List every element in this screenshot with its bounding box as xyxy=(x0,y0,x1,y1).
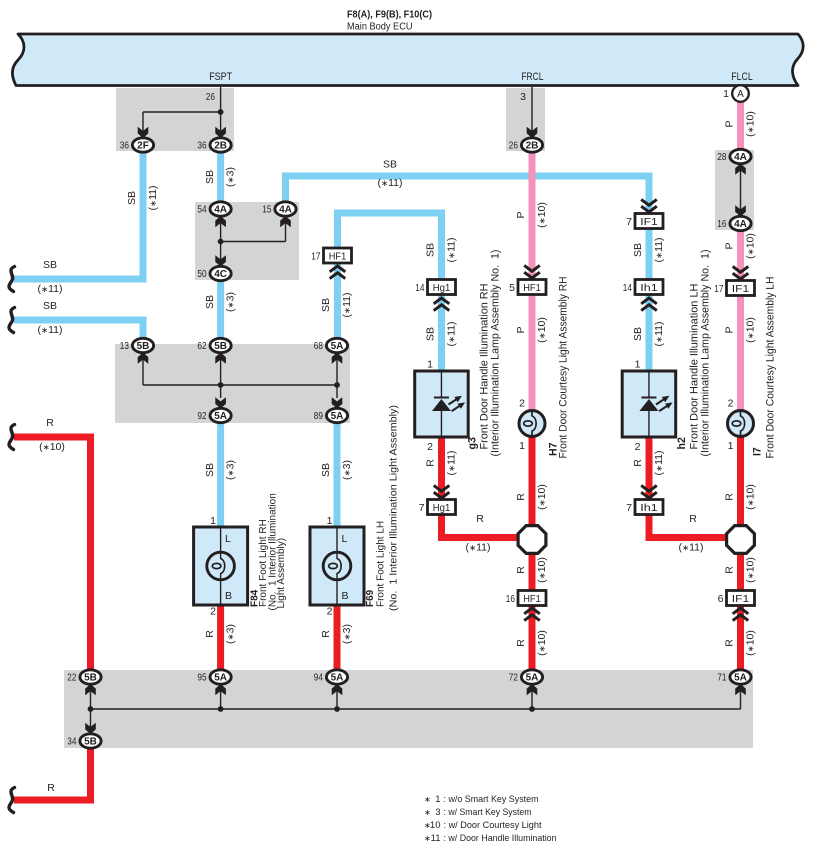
svg-text:R: R xyxy=(47,782,55,794)
svg-text:36: 36 xyxy=(120,140,129,152)
svg-text:SB: SB xyxy=(204,463,216,477)
svg-text:16: 16 xyxy=(717,218,726,230)
svg-text:(∗10): (∗10) xyxy=(745,111,757,137)
svg-text:10: 10 xyxy=(430,820,441,831)
svg-text:13: 13 xyxy=(120,340,129,352)
svg-text:Light Assembly): Light Assembly) xyxy=(276,538,287,609)
svg-text:5A: 5A xyxy=(734,673,747,684)
svg-text:(∗11): (∗11) xyxy=(37,324,62,336)
svg-text:(∗11): (∗11) xyxy=(377,177,402,189)
svg-text:22: 22 xyxy=(67,672,76,684)
svg-text:B: B xyxy=(225,590,232,602)
svg-text:2B: 2B xyxy=(526,141,539,152)
svg-text:: w/o Smart Key System: : w/o Smart Key System xyxy=(444,794,539,805)
svg-text:SB: SB xyxy=(320,463,332,477)
svg-text:36: 36 xyxy=(197,140,206,152)
svg-text:28: 28 xyxy=(717,151,726,163)
svg-text:(∗11): (∗11) xyxy=(37,283,62,295)
svg-text:5: 5 xyxy=(509,282,515,294)
svg-text:P: P xyxy=(724,120,736,127)
svg-text:HF1: HF1 xyxy=(523,593,541,605)
svg-text:(∗10): (∗10) xyxy=(745,233,757,259)
svg-text:(∗3): (∗3) xyxy=(225,167,237,187)
svg-text:R: R xyxy=(515,639,527,647)
svg-text:(∗11): (∗11) xyxy=(653,450,665,475)
svg-text:(∗11): (∗11) xyxy=(446,321,458,346)
svg-text:71: 71 xyxy=(717,672,726,684)
svg-text:(∗11): (∗11) xyxy=(653,321,665,346)
svg-text:R: R xyxy=(689,513,697,525)
svg-text:1: 1 xyxy=(427,359,433,371)
svg-text:HF1: HF1 xyxy=(329,250,347,262)
svg-text:1: 1 xyxy=(210,515,216,527)
svg-text:SB: SB xyxy=(383,159,397,171)
svg-text:R: R xyxy=(632,459,644,467)
svg-text:I7: I7 xyxy=(752,447,764,456)
svg-text:7: 7 xyxy=(626,216,632,228)
svg-text:15: 15 xyxy=(262,204,271,216)
svg-text:94: 94 xyxy=(314,672,323,684)
svg-text:(∗11): (∗11) xyxy=(465,542,490,554)
svg-text:26: 26 xyxy=(206,91,215,103)
svg-text:14: 14 xyxy=(415,282,424,294)
svg-text:R: R xyxy=(515,493,527,501)
svg-text:(∗10): (∗10) xyxy=(39,441,65,453)
svg-text:95: 95 xyxy=(197,672,206,684)
svg-text:Hg1: Hg1 xyxy=(433,282,451,294)
svg-text:R: R xyxy=(204,630,216,638)
svg-text:89: 89 xyxy=(314,410,323,422)
svg-text:IF1: IF1 xyxy=(732,283,750,295)
svg-text:(∗11): (∗11) xyxy=(653,237,665,262)
svg-text:5A: 5A xyxy=(331,411,344,422)
svg-text:(∗3): (∗3) xyxy=(341,460,353,480)
svg-text:: w/ Smart Key System: : w/ Smart Key System xyxy=(444,807,532,818)
svg-text:11: 11 xyxy=(431,833,441,844)
svg-text:: w/ Door Courtesy Light: : w/ Door Courtesy Light xyxy=(444,820,542,831)
svg-text:(∗11): (∗11) xyxy=(341,292,353,317)
svg-text:5A: 5A xyxy=(331,673,344,684)
svg-text:1: 1 xyxy=(635,359,641,371)
svg-text:h2: h2 xyxy=(676,437,688,449)
svg-text:3: 3 xyxy=(520,91,526,103)
svg-text:(∗10): (∗10) xyxy=(536,317,548,343)
svg-text:(∗3): (∗3) xyxy=(225,624,237,644)
svg-text:Front Foot Light LH: Front Foot Light LH xyxy=(375,521,386,607)
svg-text:68: 68 xyxy=(314,340,323,352)
svg-text:(∗10): (∗10) xyxy=(536,202,548,228)
svg-text:SB: SB xyxy=(126,191,138,205)
svg-text:1: 1 xyxy=(723,88,729,100)
svg-text:Front Door Courtesy Light Asse: Front Door Courtesy Light Assembly RH xyxy=(558,277,570,459)
svg-text:Hg1: Hg1 xyxy=(433,502,451,514)
svg-text:R: R xyxy=(476,513,484,525)
svg-text:P: P xyxy=(724,242,736,249)
svg-text:(∗11): (∗11) xyxy=(446,450,458,475)
svg-text:1: 1 xyxy=(327,515,333,527)
svg-text:(∗10): (∗10) xyxy=(536,557,548,583)
svg-text:2: 2 xyxy=(519,398,525,410)
svg-text:1: 1 xyxy=(519,440,525,452)
svg-text:(∗3): (∗3) xyxy=(225,292,237,312)
svg-text:1: 1 xyxy=(435,794,440,805)
svg-text:SB: SB xyxy=(425,243,437,257)
svg-text:5B: 5B xyxy=(84,737,97,748)
svg-text:FLCL: FLCL xyxy=(731,71,753,83)
svg-text:P: P xyxy=(724,326,736,333)
svg-text:SB: SB xyxy=(204,295,216,309)
svg-text:R: R xyxy=(724,639,736,647)
svg-text:Ih1: Ih1 xyxy=(640,282,658,294)
svg-text:SB: SB xyxy=(43,300,57,312)
svg-text:(∗11): (∗11) xyxy=(678,542,703,554)
svg-text:SB: SB xyxy=(632,243,644,257)
svg-text:Front Door Courtesy Light Asse: Front Door Courtesy Light Assembly LH xyxy=(765,277,777,459)
svg-text:FSPT: FSPT xyxy=(209,71,232,83)
svg-text:(∗10): (∗10) xyxy=(745,630,757,656)
svg-text:L: L xyxy=(225,533,231,545)
svg-text:(∗11): (∗11) xyxy=(147,185,159,210)
svg-text:7: 7 xyxy=(626,502,632,514)
svg-text:R: R xyxy=(724,566,736,574)
svg-text:5A: 5A xyxy=(214,673,227,684)
svg-text:R: R xyxy=(425,459,437,467)
svg-text:R: R xyxy=(724,493,736,501)
svg-text:1: 1 xyxy=(728,440,734,452)
svg-text:SB: SB xyxy=(320,298,332,312)
svg-text:SB: SB xyxy=(43,259,57,271)
svg-text:4A: 4A xyxy=(214,205,227,216)
svg-text:2B: 2B xyxy=(214,141,227,152)
svg-text:17: 17 xyxy=(714,283,723,295)
svg-text:P: P xyxy=(515,211,527,218)
svg-text:54: 54 xyxy=(197,204,206,216)
svg-text:6: 6 xyxy=(718,593,724,605)
svg-text:g3: g3 xyxy=(467,437,479,449)
svg-text:34: 34 xyxy=(67,736,76,748)
svg-text:16: 16 xyxy=(506,593,515,605)
svg-text:: w/ Door Handle Illumination: : w/ Door Handle Illumination xyxy=(444,833,557,844)
svg-text:2: 2 xyxy=(327,606,333,618)
svg-text:SB: SB xyxy=(632,327,644,341)
svg-text:R: R xyxy=(320,630,332,638)
svg-text:2: 2 xyxy=(728,398,734,410)
svg-text:4C: 4C xyxy=(214,269,227,280)
svg-text:62: 62 xyxy=(197,340,206,352)
svg-text:50: 50 xyxy=(197,268,206,280)
svg-text:(∗11): (∗11) xyxy=(446,237,458,262)
svg-text:2: 2 xyxy=(210,606,216,618)
svg-text:4A: 4A xyxy=(279,205,292,216)
svg-text:(Interior Illumination Lamp As: (Interior Illumination Lamp Assembly No.… xyxy=(700,250,712,457)
svg-text:(Interior Illumination Lamp As: (Interior Illumination Lamp Assembly No.… xyxy=(490,250,502,457)
svg-text:(No. 1 Interior Illumination: (No. 1 Interior Illumination Light Assem… xyxy=(389,405,400,611)
svg-text:5A: 5A xyxy=(526,673,539,684)
svg-text:(∗3): (∗3) xyxy=(341,624,353,644)
svg-text:F8(A), F9(B), F10(C): F8(A), F9(B), F10(C) xyxy=(347,10,432,21)
svg-text:4A: 4A xyxy=(734,152,747,163)
svg-text:7: 7 xyxy=(419,502,425,514)
svg-text:14: 14 xyxy=(623,282,632,294)
svg-text:72: 72 xyxy=(509,672,518,684)
svg-text:2: 2 xyxy=(427,441,433,453)
svg-text:HF1: HF1 xyxy=(523,282,541,294)
svg-text:Main Body ECU: Main Body ECU xyxy=(347,22,413,33)
svg-text:(∗10): (∗10) xyxy=(536,630,548,656)
svg-text:P: P xyxy=(515,326,527,333)
svg-text:SB: SB xyxy=(425,327,437,341)
svg-text:SB: SB xyxy=(204,170,216,184)
svg-text:FRCL: FRCL xyxy=(521,71,543,83)
svg-text:R: R xyxy=(46,417,54,429)
svg-text:(∗10): (∗10) xyxy=(536,484,548,510)
svg-text:(∗10): (∗10) xyxy=(745,484,757,510)
svg-text:A: A xyxy=(737,89,744,100)
svg-text:5A: 5A xyxy=(331,341,344,352)
svg-text:2F: 2F xyxy=(137,141,149,152)
svg-text:5B: 5B xyxy=(214,341,227,352)
svg-text:IF1: IF1 xyxy=(732,593,750,605)
svg-text:5B: 5B xyxy=(137,341,150,352)
svg-text:Ih1: Ih1 xyxy=(640,502,658,514)
svg-text:B: B xyxy=(342,590,349,602)
svg-text:R: R xyxy=(515,566,527,574)
svg-text:(∗10): (∗10) xyxy=(745,557,757,583)
svg-text:(∗10): (∗10) xyxy=(745,317,757,343)
svg-text:5A: 5A xyxy=(214,411,227,422)
svg-text:4A: 4A xyxy=(734,219,747,230)
svg-text:26: 26 xyxy=(509,140,518,152)
svg-text:(∗3): (∗3) xyxy=(225,460,237,480)
svg-text:92: 92 xyxy=(197,410,206,422)
svg-text:17: 17 xyxy=(311,250,320,262)
svg-text:∗: ∗ xyxy=(424,808,431,817)
svg-text:5B: 5B xyxy=(84,673,97,684)
svg-text:L: L xyxy=(342,533,348,545)
svg-text:2: 2 xyxy=(635,441,641,453)
svg-text:3: 3 xyxy=(435,807,440,818)
svg-text:∗: ∗ xyxy=(424,795,431,804)
svg-text:IF1: IF1 xyxy=(640,216,658,228)
